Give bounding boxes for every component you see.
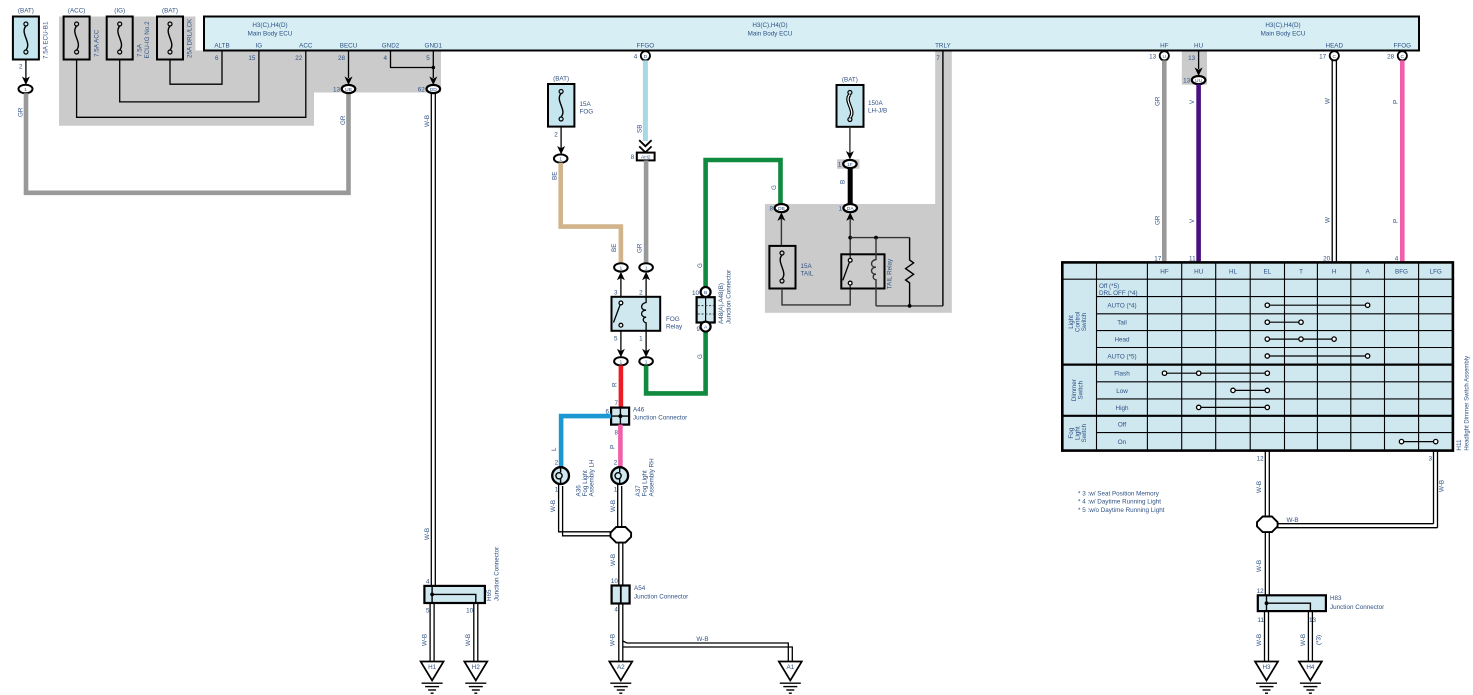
wire P pink A46 to fog light RH (618, 425, 623, 467)
svg-text:C: C (1401, 54, 1405, 60)
svg-text:ECU-IG No.2: ECU-IG No.2 (144, 21, 151, 59)
svg-text:G: G (697, 263, 704, 268)
svg-text:G: G (771, 185, 778, 190)
contact line Tail row EL-T (1267, 321, 1301, 323)
svg-text:H3(C),H4(D): H3(C),H4(D) (1265, 22, 1300, 29)
svg-text:U: U (1163, 54, 1167, 60)
svg-text:(BAT): (BAT) (162, 8, 178, 15)
svg-text:150A: 150A (868, 100, 884, 107)
ground A2 (609, 662, 632, 681)
svg-text:W-B: W-B (1256, 560, 1263, 572)
svg-text:T: T (1299, 269, 1303, 276)
wire B thick black 1F to DA (848, 168, 853, 204)
svg-text:W-B: W-B (1256, 634, 1263, 646)
wire 150A fuse to 1F connector (849, 127, 851, 154)
wire fuse ECU-B1 to connector (25, 60, 27, 81)
svg-text:H65: H65 (486, 589, 493, 601)
connector oval DB (775, 204, 789, 212)
svg-text:FFGO: FFGO (637, 43, 655, 50)
svg-text:* 3 :w/ Seat Position Memory: * 3 :w/ Seat Position Memory (1078, 490, 1160, 497)
svg-text:4: 4 (426, 579, 430, 586)
svg-text:2: 2 (19, 64, 23, 71)
wire G green relay pin1 to A48 to DB (646, 160, 780, 393)
chevron arrow into AH2 (639, 140, 651, 146)
wire L blue A46 to fog light LH (561, 416, 611, 467)
svg-text:Flash: Flash (1114, 371, 1130, 378)
svg-text:W: W (1324, 217, 1331, 223)
relay FOG Relay (612, 297, 661, 331)
svg-text:13: 13 (1188, 55, 1196, 62)
splice octagon right (1257, 517, 1278, 533)
wire BE to fog relay pin 3 (561, 163, 621, 263)
svg-text:13: 13 (1183, 78, 1191, 85)
svg-text:W-B: W-B (1287, 517, 1299, 524)
svg-text:GR: GR (1154, 96, 1161, 106)
fuse 25A DRL/LCK (157, 17, 183, 60)
wire SB from FFGO pin (643, 60, 648, 141)
svg-text:1: 1 (645, 265, 648, 271)
svg-text:22: 22 (295, 55, 303, 62)
connector oval 1 below relay pin 1 (639, 357, 653, 365)
svg-text:P: P (610, 445, 617, 449)
svg-text:62: 62 (418, 87, 426, 94)
fuse 15A FOG (548, 84, 574, 127)
svg-text:H3(C),H4(D): H3(C),H4(D) (252, 22, 287, 29)
svg-text:B: B (704, 290, 707, 296)
contact line AUTO (*4) row EL-A (1267, 304, 1367, 306)
svg-text:Junction Connector: Junction Connector (633, 415, 687, 422)
wire W-B from DD to H65 (430, 93, 432, 586)
svg-text:4: 4 (634, 54, 638, 61)
svg-text:5: 5 (426, 608, 430, 615)
resistor (906, 238, 914, 306)
wire IG fuse to ECU pin IG (120, 51, 259, 102)
svg-text:DB: DB (778, 206, 785, 212)
svg-text:GND1: GND1 (425, 43, 443, 50)
svg-text:On: On (1118, 439, 1127, 446)
svg-text:3: 3 (1428, 455, 1432, 462)
svg-text:13: 13 (333, 87, 341, 94)
contact line Low row HL-EL (1233, 389, 1267, 391)
svg-text:11: 11 (1257, 617, 1264, 624)
wire TRLY pin down (942, 51, 944, 306)
svg-text:Junction Connector: Junction Connector (634, 594, 688, 601)
svg-text:H1: H1 (428, 664, 437, 671)
wire relay pin 5 out (620, 331, 622, 352)
contact line Head row EL-T-H (1267, 338, 1334, 340)
svg-text:HU: HU (1194, 43, 1204, 50)
svg-text:10: 10 (611, 578, 619, 585)
svg-text:FOG: FOG (580, 109, 594, 116)
fuse 7.5A ECU-IG No.2 (107, 17, 133, 60)
svg-text:DD: DD (430, 87, 438, 93)
svg-text:7.5A ECU-B1: 7.5A ECU-B1 (43, 21, 50, 59)
svg-text:15A: 15A (801, 263, 813, 270)
contact line Flash row HF-HU-EL (1165, 372, 1268, 374)
svg-text:HF: HF (1160, 269, 1169, 276)
svg-text:W-B: W-B (610, 500, 617, 512)
junction connector H83 (1258, 595, 1326, 611)
wire into relay pin 3 (617, 272, 625, 281)
svg-text:W-B: W-B (550, 500, 557, 512)
ground A1 (779, 662, 802, 681)
ground H1 (421, 662, 444, 681)
svg-text:A48(A),A48(B): A48(A),A48(B) (718, 283, 725, 324)
svg-text:12: 12 (1257, 588, 1265, 595)
svg-text:GR: GR (637, 243, 644, 253)
fog light assembly RH A37 (611, 467, 628, 484)
svg-text:EL: EL (1263, 269, 1271, 276)
svg-text:* 4 :w/ Daytime Running Light: * 4 :w/ Daytime Running Light (1078, 499, 1161, 506)
svg-text:1: 1 (639, 336, 643, 343)
ground H4 (1299, 662, 1322, 681)
svg-text:10: 10 (692, 290, 700, 297)
connector circle C at FFOG (1398, 51, 1407, 60)
svg-text:1: 1 (620, 265, 623, 271)
shaded strip 1F connector (837, 159, 860, 169)
svg-text:H2: H2 (472, 664, 481, 671)
svg-text:High: High (1116, 405, 1129, 412)
svg-text:TRLY: TRLY (935, 43, 951, 50)
svg-text:HL: HL (1229, 269, 1238, 276)
svg-text:H3: H3 (1262, 664, 1271, 671)
ground H3 (1255, 662, 1278, 681)
shaded harness area top-left (59, 17, 441, 126)
svg-text:6: 6 (605, 409, 609, 416)
wire V purple UU to switch table (1196, 84, 1201, 262)
svg-text:DRL OFF (*4): DRL OFF (*4) (1099, 290, 1138, 297)
svg-text:4: 4 (383, 55, 387, 62)
svg-text:Off (*5): Off (*5) (1099, 283, 1119, 290)
svg-text:D: D (644, 54, 648, 60)
svg-text:HF: HF (1160, 43, 1169, 50)
svg-text:UB: UB (345, 87, 352, 93)
svg-text:LH-J/B: LH-J/B (868, 108, 887, 115)
svg-text:Junction Connector: Junction Connector (1330, 604, 1384, 611)
svg-text:8: 8 (614, 430, 618, 437)
svg-text:2: 2 (639, 290, 643, 297)
svg-text:ALTB: ALTB (214, 43, 229, 50)
connector oval DA (843, 204, 857, 212)
fuse 7.5A ACC (64, 17, 90, 60)
shaded channel TRLY wire (935, 51, 952, 205)
svg-text:28: 28 (1387, 54, 1395, 61)
connector oval 1 above relay pin 3 (614, 263, 628, 271)
connector oval 1 below ECU-B1 fuse (19, 85, 33, 94)
svg-text:W-B: W-B (1256, 481, 1263, 493)
connector circle D at FFGO (641, 51, 650, 60)
fuse 150A LH-J/B (837, 85, 864, 127)
wire GR thick loop to UB (26, 93, 349, 193)
svg-text:HEAD: HEAD (1326, 43, 1344, 50)
svg-text:A1: A1 (786, 664, 794, 671)
svg-text:13: 13 (1149, 54, 1157, 61)
svg-text:1: 1 (645, 359, 648, 365)
wire GND1 pin down (432, 51, 434, 79)
svg-text:Tail: Tail (1117, 320, 1126, 327)
wire HU pin to UU connector (1198, 51, 1200, 70)
arrow up into DA (846, 212, 854, 221)
svg-text:BECU: BECU (340, 43, 358, 50)
svg-text:TAIL Relay: TAIL Relay (887, 258, 894, 289)
svg-text:2: 2 (614, 460, 618, 467)
connector oval UB (342, 85, 356, 93)
svg-text:R: R (612, 382, 619, 387)
svg-text:7.5A: 7.5A (137, 43, 144, 57)
svg-text:HU: HU (1194, 269, 1204, 276)
svg-text:1: 1 (838, 206, 842, 213)
fog light assembly LH A36 (552, 467, 569, 484)
svg-text:BE: BE (552, 172, 559, 180)
svg-text:Junction Connector: Junction Connector (494, 547, 501, 601)
svg-text:DA: DA (847, 206, 855, 212)
svg-text:A46: A46 (633, 407, 645, 414)
svg-text:C: C (1333, 54, 1337, 60)
svg-text:25A DRL/LCK: 25A DRL/LCK (187, 18, 194, 58)
svg-text:5: 5 (614, 336, 618, 343)
svg-text:Switch: Switch (1078, 380, 1085, 399)
svg-text:Off: Off (1118, 422, 1127, 429)
arrow up into DB (777, 212, 785, 221)
svg-text:FOG: FOG (666, 316, 680, 323)
svg-text:(ACC): (ACC) (68, 8, 86, 15)
svg-text:1: 1 (838, 162, 842, 169)
svg-text:LFG: LFG (1430, 269, 1442, 276)
connector circle C at HEAD (1330, 51, 1339, 60)
svg-text:W-B: W-B (424, 115, 431, 127)
wire GR from AH2 to fog relay pin 2 (644, 161, 649, 264)
ground H2 (464, 662, 487, 681)
svg-text:GR: GR (1154, 215, 1161, 225)
junction connector H65 (424, 586, 485, 603)
contact line AUTO (*5) row EL-A (1267, 355, 1367, 357)
wire R red relay to A46 (619, 366, 624, 408)
fuse 7.5A ECU-B1 (13, 17, 39, 60)
svg-text:SB: SB (637, 125, 644, 133)
svg-text:1: 1 (620, 359, 623, 365)
svg-text:W-B: W-B (1300, 634, 1307, 646)
svg-text:1F: 1F (847, 162, 853, 168)
svg-text:H11: H11 (1456, 439, 1463, 451)
svg-text:P: P (1392, 219, 1399, 223)
wire fuse FOG to connector (560, 127, 562, 149)
svg-text:BE: BE (611, 244, 618, 252)
svg-text:(*3): (*3) (1316, 635, 1323, 645)
svg-text:V: V (1189, 99, 1196, 104)
svg-text:7: 7 (614, 400, 618, 407)
svg-text:(BAT): (BAT) (842, 77, 858, 84)
svg-text:GR: GR (340, 115, 347, 125)
svg-text:ACC: ACC (299, 43, 313, 50)
connector oval 1 below FOG fuse (554, 154, 568, 162)
contact line High row HU-EL (1199, 406, 1268, 408)
svg-text:Relay: Relay (666, 324, 683, 331)
svg-text:Head: Head (1114, 337, 1130, 344)
wire DA down with junctions (849, 219, 851, 259)
svg-text:Assembly RH: Assembly RH (648, 458, 655, 497)
wire DB to 15A TAIL fuse (780, 219, 782, 246)
svg-text:BFG: BFG (1395, 269, 1408, 276)
svg-text:B: B (840, 180, 847, 184)
svg-text:15A: 15A (580, 101, 592, 108)
junction connector A48(A),A48(B) (701, 287, 711, 297)
wire BECU pin to UB connector (348, 51, 350, 79)
svg-text:AUTO (*5): AUTO (*5) (1107, 354, 1136, 361)
svg-text:W-B: W-B (1439, 480, 1446, 492)
svg-text:UU: UU (1195, 78, 1203, 84)
wire W double HEAD pin to switch table (1331, 60, 1333, 262)
svg-text:Main Body ECU: Main Body ECU (748, 31, 793, 38)
svg-text:7: 7 (936, 55, 940, 62)
wire W-B splice to A54 (618, 543, 620, 586)
svg-text:AUTO (*4): AUTO (*4) (1107, 303, 1136, 310)
svg-text:Switch: Switch (1081, 312, 1088, 331)
wire GND2 pin to GND1 wire (391, 51, 434, 68)
svg-text:Assembly LH: Assembly LH (589, 459, 596, 497)
shaded area tail relay block (765, 204, 952, 313)
wire W-B splice to H83 (1264, 532, 1266, 595)
svg-text:W: W (1324, 98, 1331, 104)
svg-text:28: 28 (338, 55, 346, 62)
svg-text:W-B: W-B (696, 636, 708, 643)
svg-text:TAIL: TAIL (801, 271, 814, 278)
connector AH2 (637, 153, 655, 161)
svg-text:GR: GR (18, 107, 25, 117)
svg-text:2: 2 (554, 132, 558, 139)
svg-text:15: 15 (248, 55, 256, 62)
svg-text:Main Body ECU: Main Body ECU (248, 31, 293, 38)
svg-text:9: 9 (696, 326, 700, 333)
fuse 15A TAIL (769, 246, 795, 289)
svg-text:17: 17 (1319, 54, 1327, 61)
svg-text:W-B: W-B (610, 554, 617, 566)
svg-text:8: 8 (631, 154, 635, 161)
svg-text:(BAT): (BAT) (553, 76, 569, 83)
svg-text:Headlight Dimmer Switch Assemb: Headlight Dimmer Switch Assembly (1465, 356, 1471, 451)
wire TAIL fuse bottom to relay switch (782, 285, 850, 305)
svg-text:1: 1 (559, 157, 562, 163)
wire bottom right to TRLY wire (876, 305, 943, 307)
splice octagon (611, 527, 632, 543)
wire ACC fuse to ECU pin ACC (77, 51, 306, 118)
svg-text:W-B: W-B (610, 634, 617, 646)
svg-text:(IG): (IG) (114, 8, 125, 15)
wire GR from HF pin to switch table (1162, 60, 1167, 262)
connector oval DD (427, 85, 441, 93)
svg-text:W-B: W-B (424, 528, 431, 540)
svg-text:10: 10 (466, 608, 474, 615)
junction GND1/GND2 (432, 66, 436, 70)
connector oval 1 below relay pin 5 (614, 357, 628, 365)
svg-text:L: L (551, 447, 558, 451)
svg-text:Switch: Switch (1081, 423, 1088, 442)
svg-text:H4: H4 (1306, 664, 1315, 671)
svg-text:12: 12 (1257, 455, 1265, 462)
svg-text:W-B: W-B (465, 634, 472, 646)
svg-text:G: G (697, 354, 704, 359)
svg-text:8: 8 (769, 206, 773, 213)
svg-text:W-B: W-B (422, 634, 429, 646)
svg-text:Main Body ECU: Main Body ECU (1261, 31, 1306, 38)
svg-text:1: 1 (24, 87, 27, 93)
contact line On row BFG-LFG (1402, 441, 1436, 443)
wire DRL fuse to ECU pin ALTB (170, 51, 222, 85)
connector oval 1 above relay pin 2 (639, 263, 653, 271)
svg-text:3: 3 (614, 290, 618, 297)
svg-text:5: 5 (426, 55, 430, 62)
svg-text:Low: Low (1116, 388, 1128, 395)
svg-text:H83: H83 (1330, 595, 1342, 602)
svg-text:4: 4 (614, 607, 618, 614)
wire relay pin 1 out (645, 331, 647, 352)
svg-text:(BAT): (BAT) (18, 8, 34, 15)
svg-text:6: 6 (215, 55, 219, 62)
shaded strip HU connector (1182, 51, 1207, 85)
wire into relay pin 2 (642, 272, 650, 281)
connector circle U at HF (1160, 51, 1169, 60)
svg-text:V: V (1189, 218, 1196, 223)
connector oval 1F (843, 160, 856, 168)
svg-text:FFOG: FFOG (1394, 43, 1412, 50)
svg-text:IG: IG (256, 43, 263, 50)
svg-text:7.5A ACC: 7.5A ACC (94, 29, 101, 57)
svg-text:2: 2 (555, 460, 559, 467)
svg-text:AH2: AH2 (641, 155, 651, 161)
connector oval UU (1192, 76, 1206, 84)
junction connector A46 (611, 408, 629, 425)
junction connector A54 (612, 586, 630, 604)
svg-text:H: H (1332, 269, 1337, 276)
svg-text:P: P (1392, 100, 1399, 104)
svg-text:A2: A2 (617, 664, 625, 671)
switch table H11 headlight dimmer switch assembly (1062, 262, 1453, 450)
svg-text:GND2: GND2 (382, 43, 400, 50)
svg-text:A54: A54 (634, 585, 646, 592)
ECU box H3(C),H4(D) Main Body ECU (204, 17, 1419, 51)
svg-text:H3(C),H4(D): H3(C),H4(D) (752, 22, 787, 29)
svg-text:Junction Connector: Junction Connector (726, 270, 733, 324)
relay TAIL Relay (841, 254, 884, 288)
wire P pink FFOG pin to switch table (1400, 60, 1405, 262)
svg-text:* 5 :w/o Daytime Running Light: * 5 :w/o Daytime Running Light (1078, 507, 1165, 514)
